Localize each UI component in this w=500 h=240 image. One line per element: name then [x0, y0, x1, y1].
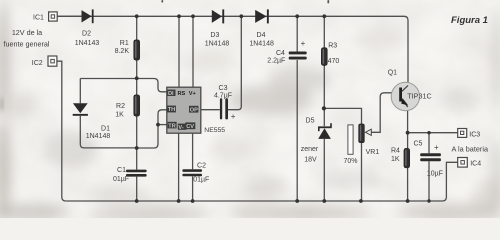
svg-text:Figura 1: Figura 1 — [451, 15, 488, 26]
svg-text:zener: zener — [301, 146, 319, 153]
svg-text:A la bateria: A la bateria — [452, 145, 489, 154]
svg-text:RS: RS — [178, 91, 186, 97]
svg-text:IC2: IC2 — [32, 60, 43, 67]
svg-text:VR1: VR1 — [366, 149, 380, 156]
svg-text:NE555: NE555 — [204, 127, 225, 134]
svg-text:2.2µF: 2.2µF — [267, 57, 285, 64]
svg-text:1N4143: 1N4143 — [75, 40, 100, 47]
svg-text:C2: C2 — [197, 163, 206, 170]
svg-text:470: 470 — [328, 58, 340, 65]
svg-text:OP: OP — [190, 107, 198, 113]
svg-text:C1: C1 — [117, 167, 126, 174]
svg-text:IC4: IC4 — [470, 160, 481, 167]
svg-text:12V de la: 12V de la — [12, 28, 42, 37]
svg-text:DI: DI — [168, 91, 174, 97]
svg-text:18V: 18V — [304, 156, 317, 163]
svg-text:C4: C4 — [276, 50, 285, 57]
svg-text:4.7µF: 4.7µF — [214, 93, 232, 100]
svg-text:70%: 70% — [343, 158, 357, 165]
svg-text:D3: D3 — [210, 32, 219, 39]
svg-text:R3: R3 — [328, 43, 337, 50]
svg-text:D5: D5 — [306, 117, 315, 124]
svg-text:R1: R1 — [120, 40, 129, 47]
svg-text:V+: V+ — [189, 91, 197, 97]
svg-text:8.2K: 8.2K — [115, 48, 130, 55]
svg-text:TH: TH — [168, 107, 175, 113]
svg-text:01µF: 01µF — [193, 177, 209, 184]
svg-text:R2: R2 — [116, 103, 125, 110]
svg-text:1N4148: 1N4148 — [86, 133, 111, 140]
svg-text:+: + — [434, 143, 439, 152]
svg-text:1K: 1K — [391, 156, 400, 163]
svg-text:10µF: 10µF — [427, 170, 443, 177]
svg-text:C3: C3 — [219, 85, 228, 92]
svg-text:Q1: Q1 — [388, 70, 397, 77]
svg-text:V-: V- — [178, 125, 183, 131]
svg-text:TIP31C: TIP31C — [407, 92, 431, 101]
svg-text:C5: C5 — [414, 140, 423, 147]
svg-text:CV: CV — [186, 124, 194, 130]
svg-text:D4: D4 — [257, 32, 266, 39]
svg-text:fuente general: fuente general — [4, 40, 50, 49]
svg-text:+: + — [231, 112, 236, 121]
svg-text:01µF: 01µF — [113, 176, 129, 183]
svg-text:IC3: IC3 — [469, 132, 480, 139]
svg-text:D1: D1 — [101, 126, 110, 133]
svg-text:1K: 1K — [115, 112, 124, 119]
svg-text:1N4148: 1N4148 — [205, 41, 230, 48]
svg-text:+: + — [301, 39, 306, 48]
svg-text:R4: R4 — [391, 148, 400, 155]
svg-text:1N4148: 1N4148 — [249, 41, 274, 48]
svg-text:TR: TR — [168, 123, 175, 129]
svg-text:D2: D2 — [82, 30, 91, 37]
svg-text:IC1: IC1 — [33, 15, 44, 22]
